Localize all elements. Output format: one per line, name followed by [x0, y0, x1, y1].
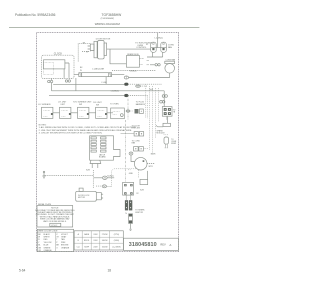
splice oval left of plug: [125, 110, 134, 112]
svg-text:FAN: FAN: [168, 46, 173, 49]
svg-text:L.F. SURFACE: L.F. SURFACE: [38, 103, 51, 106]
fuse F2 body: [161, 42, 167, 52]
svg-text:ORANGE: ORANGE: [44, 249, 53, 252]
notes info box text: [35, 208, 75, 223]
svg-text:SNSR: SNSR: [171, 143, 177, 145]
svg-text:BOARD: BOARD: [99, 156, 106, 159]
fuse F1 dark base: [152, 48, 154, 50]
wire from dot1 right dashed: [128, 84, 161, 95]
door motor wire lower dashed: [82, 51, 90, 53]
svg-text:3. CIRCUIT SHOWN WITH DOOR SWI: 3. CIRCUIT SHOWN WITH DOOR SWITCH IN CLO…: [39, 132, 103, 134]
motor inner dot: [143, 160, 145, 162]
door lock right plug: [96, 193, 103, 200]
broil element bar: [79, 73, 112, 77]
svg-text:N-BR: N-BR: [151, 154, 156, 156]
wire bus lines center: [49, 83, 164, 96]
svg-text:R.R. SURFACE UNIT: R.R. SURFACE UNIT: [73, 101, 92, 104]
dashed wire below motor: [112, 169, 136, 187]
svg-text:1500W: 1500W: [102, 246, 108, 248]
svg-text:L1-BK(2) BR: L1-BK(2) BR: [92, 69, 104, 71]
ground symbol: [42, 171, 45, 178]
wire below fuses: [147, 52, 163, 57]
svg-text:BROWN: BROWN: [61, 245, 69, 247]
small box lower right: [140, 179, 148, 184]
wire motor right: [147, 163, 154, 165]
main schematic frame (dotted border): [37, 33, 179, 252]
door lock assembly body: [76, 191, 97, 201]
svg-text:CONTROL: CONTROL: [136, 47, 147, 49]
svg-text:TAN: TAN: [61, 238, 65, 241]
svg-text:A: A: [169, 243, 171, 247]
svg-text:N-BK(2): N-BK(2): [130, 70, 137, 72]
wires block to plug pair: [126, 195, 130, 200]
door motor wire L left (dashed): [78, 44, 90, 62]
dashed stub below motor: [128, 170, 138, 178]
surface unit switch box 1: [42, 107, 53, 118]
svg-text:W: W: [80, 70, 82, 72]
header horizontal rule: [9, 27, 199, 29]
connector icon upper (2 plugs): [121, 125, 144, 136]
svg-text:BAKE: BAKE: [84, 233, 90, 236]
wire L1 vertical: [151, 33, 167, 48]
svg-text:W: W: [38, 237, 40, 239]
wire from clock pin 1 down: [64, 63, 69, 78]
svg-text:WIRING DIAGRAM: WIRING DIAGRAM: [95, 22, 121, 26]
door motor left terminal lug: [88, 44, 94, 50]
wire color code table: [37, 229, 73, 252]
junction dot 1: [124, 83, 128, 86]
door lock assembly top tab: [79, 188, 83, 191]
dashed wire above broil right: [112, 70, 156, 72]
cooling fan motor circle: [134, 157, 147, 170]
part number band box: [124, 238, 179, 250]
junction oval after broil: [124, 76, 128, 79]
surface unit switch box 4: [96, 107, 107, 118]
svg-text:RED: RED: [44, 239, 49, 241]
svg-text:N-W(2): N-W(2): [107, 175, 113, 177]
svg-text:(1-2.6KW): (1-2.6KW): [112, 246, 121, 248]
connector pair A below console: [48, 80, 53, 82]
svg-text:SW: SW: [96, 104, 99, 106]
dashed wire above door lock: [96, 185, 112, 187]
fuse F2 inner dot: [163, 43, 165, 45]
svg-text:LOCK SW: LOCK SW: [132, 127, 141, 129]
svg-text:(TGF365BHW): (TGF365BHW): [101, 18, 115, 20]
dark plug single: [129, 214, 133, 231]
splice x-oval on ground wire: [94, 176, 114, 179]
surface unit switch box 3: [78, 107, 89, 118]
svg-text:BROIL: BROIL: [84, 240, 89, 242]
clock console dashed box: [42, 55, 75, 78]
dashed ground wire: [45, 175, 94, 177]
svg-text:SW: SW: [79, 104, 82, 106]
splice x-circle left of motor: [129, 152, 133, 155]
fuse F1 body: [151, 42, 157, 52]
connector pair mid right: [162, 95, 167, 98]
wire console left pin down: [51, 79, 53, 81]
svg-text:GND: GND: [129, 173, 134, 175]
connector icon lower (2 plugs): [132, 141, 149, 152]
svg-text:BL: BL: [38, 245, 40, 247]
junction dot 2: [124, 94, 128, 97]
svg-text:BLACK: BLACK: [44, 233, 51, 236]
svg-text:WHITE: WHITE: [44, 237, 51, 239]
svg-text:MODULE: MODULE: [157, 133, 166, 135]
terminal block tail wire: [166, 116, 168, 120]
svg-text:MOTOR: MOTOR: [78, 197, 86, 199]
clock inner box: [44, 60, 65, 69]
svg-text:L1 N L2: L1 N L2: [51, 225, 57, 227]
wire from splice to motor: [131, 155, 134, 161]
svg-text:HARNESS: HARNESS: [136, 103, 146, 106]
svg-text:N-W: N-W: [140, 190, 144, 192]
wire left of broil element: [74, 75, 79, 91]
fuse F1 inner dot: [153, 43, 155, 45]
svg-text:IGNITOR: IGNITOR: [135, 212, 143, 214]
wire down to terminal block: [163, 91, 165, 107]
svg-text:1. ALL WIRING SHOWN WITH DOOR: 1. ALL WIRING SHOWN WITH DOOR CLOSED, OV…: [39, 126, 137, 129]
svg-text:L1-BK(1): L1-BK(1): [155, 37, 164, 39]
connector pair B below console: [65, 80, 70, 82]
convection fan cap box: [165, 61, 175, 63]
notes info box: [37, 206, 73, 228]
svg-text:SERIAL PLATE: SERIAL PLATE: [38, 203, 52, 206]
terminal block 2x2: [162, 107, 172, 117]
surface unit switch box 5: [111, 108, 125, 119]
wire down to small box: [147, 171, 149, 180]
door motor body: [98, 41, 104, 59]
svg-text:N-W: N-W: [150, 89, 154, 91]
power board box: [90, 136, 120, 160]
svg-text:5-64: 5-64: [19, 269, 26, 273]
EOC pin right upper: [139, 58, 143, 60]
svg-text:(3400): (3400): [114, 240, 120, 242]
door motor right bar: [104, 43, 107, 55]
svg-text:N-W: N-W: [86, 170, 90, 172]
small plug squares right: [135, 109, 144, 114]
svg-text:Publication No. 5995A23456: Publication No. 5995A23456: [15, 13, 56, 17]
EOC pin right lower: [139, 63, 142, 65]
convection fan motor circle: [165, 64, 175, 74]
wires between switch boxes: [53, 112, 113, 114]
dash-dot vertical wire to terminal block: [125, 95, 128, 182]
svg-text:(2750): (2750): [114, 234, 120, 236]
fuse F2 dark base: [162, 48, 164, 50]
svg-text:TGF365BHW: TGF365BHW: [102, 13, 123, 17]
svg-text:2750W: 2750W: [102, 234, 108, 236]
splice oval with X: [136, 85, 141, 87]
svg-text:PINK: PINK: [61, 242, 66, 244]
terminal block 2x3: [123, 182, 134, 195]
wire door motor to fuse area: [107, 49, 151, 64]
connector pair left of fan: [150, 64, 160, 66]
svg-text:2. USE ONLY REPLACEMENT WIRE W: 2. USE ONLY REPLACEMENT WIRE WITH SAME G…: [39, 129, 133, 132]
power board bottom flange: [90, 160, 101, 168]
door motor stator bar: [94, 41, 97, 58]
oven sensor body: [164, 135, 169, 148]
svg-text:VIOLET: VIOLET: [61, 234, 69, 236]
svg-text:318045810: 318045810: [129, 242, 157, 248]
svg-text:MTR: MTR: [149, 166, 154, 168]
stub marks left: [147, 61, 150, 65]
splice x-oval above door lock: [102, 185, 106, 188]
svg-text:L1-BK(1): L1-BK(1): [111, 91, 119, 93]
svg-text:18: 18: [108, 269, 112, 273]
surface unit switch box 2: [60, 107, 71, 118]
svg-text:REV: REV: [160, 243, 166, 247]
vertical dashed wire to door lock: [92, 170, 94, 188]
svg-text:GREEN: GREEN: [44, 247, 51, 249]
svg-text:W: W: [86, 51, 88, 53]
EOC box: [126, 56, 139, 68]
notes inner small box: [50, 223, 61, 227]
svg-text:3400W: 3400W: [102, 240, 108, 242]
svg-text:GRAY: GRAY: [61, 236, 67, 239]
wire broil to oval and right: [112, 73, 170, 77]
buzzer icon top: [156, 117, 171, 135]
svg-text:VARY ON SOME MODELS.: VARY ON SOME MODELS.: [43, 220, 67, 223]
svg-text:YELLOW: YELLOW: [44, 242, 52, 244]
svg-text:ORANGE: ORANGE: [61, 246, 70, 249]
vertical stub from wire: [105, 77, 107, 85]
svg-text:TO OVEN: TO OVEN: [110, 103, 119, 105]
dashed vertical wire bundle: [146, 84, 159, 154]
svg-text:BLUE: BLUE: [44, 245, 50, 247]
clock inner dashed detail: [44, 62, 54, 74]
svg-text:L1-BK: L1-BK: [102, 82, 108, 84]
svg-text:NOTES:: NOTES:: [39, 124, 47, 126]
connector pair lower right: [160, 101, 165, 104]
spec table middle: [74, 231, 123, 250]
dark plug pair: [125, 200, 132, 210]
